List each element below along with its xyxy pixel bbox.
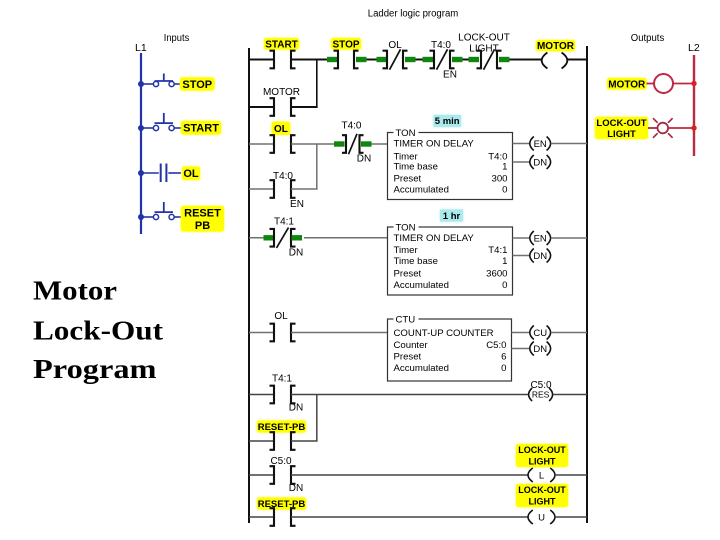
svg-text:EN: EN	[290, 199, 304, 210]
svg-text:DN: DN	[533, 157, 547, 168]
svg-text:LOCK-OUT: LOCK-OUT	[518, 445, 566, 455]
svg-text:STOP: STOP	[182, 79, 212, 91]
svg-text:T4:0: T4:0	[431, 40, 451, 51]
svg-text:TON: TON	[396, 223, 416, 234]
svg-text:T4:1: T4:1	[488, 245, 507, 256]
svg-text:EN: EN	[443, 70, 457, 81]
svg-text:0: 0	[502, 280, 507, 291]
svg-text:DN: DN	[289, 483, 303, 494]
svg-text:Accumulated: Accumulated	[394, 185, 449, 196]
svg-text:CU: CU	[533, 328, 547, 339]
svg-text:1: 1	[502, 162, 507, 173]
svg-text:OL: OL	[183, 168, 199, 180]
svg-text:RESET-PB: RESET-PB	[258, 422, 306, 433]
svg-text:RESET-PB: RESET-PB	[258, 499, 306, 510]
svg-text:0: 0	[502, 185, 507, 196]
svg-text:Preset: Preset	[394, 269, 422, 280]
svg-text:L2: L2	[688, 42, 700, 54]
svg-text:6: 6	[501, 352, 506, 363]
svg-text:Accumulated: Accumulated	[394, 363, 449, 374]
svg-text:LOCK-OUT: LOCK-OUT	[458, 33, 510, 44]
svg-text:LOCK-OUT: LOCK-OUT	[596, 118, 646, 129]
svg-text:Time base: Time base	[394, 162, 438, 173]
svg-text:L1: L1	[135, 42, 147, 54]
svg-text:Time base: Time base	[394, 256, 438, 267]
svg-text:COUNT-UP COUNTER: COUNT-UP COUNTER	[394, 328, 494, 339]
svg-text:Counter: Counter	[394, 340, 429, 351]
svg-text:T4:1: T4:1	[274, 217, 294, 228]
svg-text:LOCK-OUT: LOCK-OUT	[518, 485, 566, 495]
svg-text:RES: RES	[532, 390, 550, 400]
svg-text:Timer: Timer	[394, 245, 419, 256]
svg-text:DN: DN	[533, 344, 547, 355]
svg-text:LIGHT: LIGHT	[607, 129, 636, 140]
svg-text:0: 0	[501, 363, 506, 374]
svg-text:U: U	[538, 512, 545, 523]
svg-text:START: START	[265, 39, 298, 50]
svg-text:RESET: RESET	[184, 207, 221, 219]
svg-text:MOTOR: MOTOR	[263, 87, 300, 98]
svg-text:TIMER ON DELAY: TIMER ON DELAY	[394, 233, 475, 244]
svg-text:STOP: STOP	[332, 39, 359, 50]
svg-text:DN: DN	[289, 248, 303, 259]
svg-text:TON: TON	[396, 128, 416, 139]
svg-text:MOTOR: MOTOR	[537, 41, 575, 52]
svg-text:Motor: Motor	[33, 276, 117, 306]
svg-text:3600: 3600	[486, 269, 507, 280]
svg-text:Preset: Preset	[394, 352, 422, 363]
svg-text:T4:1: T4:1	[272, 374, 292, 385]
svg-text:T4:0: T4:0	[341, 121, 361, 132]
svg-text:Preset: Preset	[394, 174, 422, 185]
svg-text:5 min: 5 min	[435, 116, 460, 127]
svg-text:Program: Program	[33, 354, 157, 384]
svg-text:Outputs: Outputs	[631, 33, 665, 44]
svg-text:LIGHT: LIGHT	[529, 496, 556, 506]
svg-text:CTU: CTU	[396, 315, 416, 326]
svg-text:TIMER ON DELAY: TIMER ON DELAY	[394, 139, 475, 150]
svg-text:EN: EN	[534, 233, 547, 244]
svg-text:START: START	[183, 123, 219, 135]
svg-text:DN: DN	[533, 251, 547, 262]
svg-text:Ladder logic program: Ladder logic program	[368, 9, 459, 20]
svg-text:1: 1	[502, 256, 507, 267]
svg-text:L: L	[539, 470, 544, 481]
svg-text:1 hr: 1 hr	[443, 211, 461, 222]
svg-text:MOTOR: MOTOR	[608, 79, 646, 90]
svg-text:DN: DN	[289, 403, 303, 414]
svg-text:LIGHT: LIGHT	[469, 44, 498, 55]
svg-text:Inputs: Inputs	[164, 33, 190, 44]
svg-text:300: 300	[491, 174, 507, 185]
svg-text:Accumulated: Accumulated	[394, 280, 449, 291]
svg-text:LIGHT: LIGHT	[529, 456, 556, 466]
svg-text:Lock-Out: Lock-Out	[33, 316, 163, 346]
svg-text:OL: OL	[274, 124, 288, 135]
svg-text:OL: OL	[274, 311, 288, 322]
svg-text:DN: DN	[357, 154, 371, 165]
svg-text:PB: PB	[195, 220, 210, 232]
svg-text:EN: EN	[534, 139, 547, 150]
svg-text:C5:0: C5:0	[486, 340, 506, 351]
